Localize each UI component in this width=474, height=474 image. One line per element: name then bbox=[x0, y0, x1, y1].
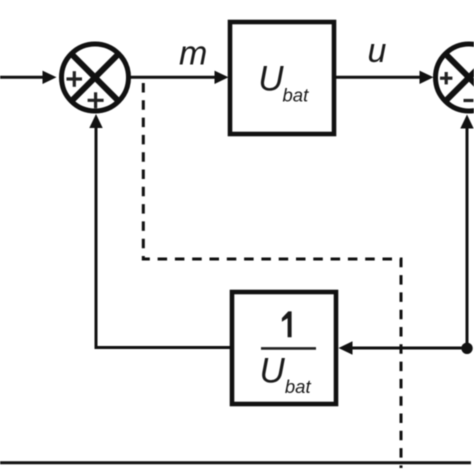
wire input arrow into summing junction S1 bbox=[0, 71, 57, 84]
label u bbox=[368, 32, 387, 70]
summing junction S2 bbox=[436, 44, 474, 111]
svg-text:U: U bbox=[260, 352, 286, 391]
wire U1 to summing junction S2 bbox=[336, 71, 434, 84]
summing junction S1 bbox=[62, 44, 129, 111]
plus sign (left input of S1) bbox=[67, 71, 83, 87]
node A junction dot bbox=[461, 343, 472, 354]
svg-text:bat: bat bbox=[285, 376, 312, 397]
dashed wire from m line down, right, down to bottom bbox=[143, 83, 401, 468]
plus sign (left input of S2) bbox=[440, 72, 452, 84]
svg-text:U: U bbox=[258, 60, 284, 99]
minus sign (bottom input of S2) bbox=[464, 99, 474, 102]
wire S1 to block U1 bbox=[128, 71, 229, 84]
wire node A to block U2 (arrow into right side) bbox=[339, 341, 465, 354]
svg-text:m: m bbox=[179, 35, 207, 73]
wire U2 output feedback to S1 (arrow up into S1 bottom) bbox=[89, 114, 230, 349]
svg-text:u: u bbox=[368, 32, 387, 70]
plus sign (bottom input of S1) bbox=[88, 92, 104, 108]
svg-text:bat: bat bbox=[283, 85, 310, 106]
block U1 Ubat bbox=[230, 22, 334, 134]
label m bbox=[179, 35, 207, 73]
block U2 1/Ubat bbox=[232, 292, 336, 404]
wire bottom horizontal line bbox=[0, 461, 471, 464]
wire node A up into S2 (arrow) bbox=[460, 115, 473, 349]
